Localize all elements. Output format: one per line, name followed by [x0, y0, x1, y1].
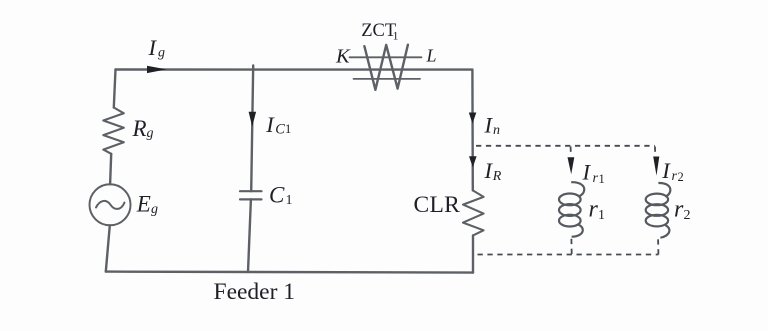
dashed wire r2 branch top stub: [654, 147, 656, 157]
dashed wire bottom of recloser box: [478, 254, 659, 256]
svg-text:1: 1: [286, 193, 293, 208]
svg-text:E: E: [136, 192, 151, 217]
svg-text:g: g: [147, 126, 154, 141]
svg-text:1: 1: [285, 122, 291, 136]
svg-text:C: C: [275, 121, 285, 137]
wire bottom horizontal: [106, 272, 473, 273]
svg-text:n: n: [493, 123, 500, 138]
svg-text:I: I: [148, 35, 158, 60]
wire left between Rg and Eg: [110, 154, 111, 185]
svg-text:g: g: [151, 202, 158, 217]
svg-text:ZCT: ZCT: [361, 21, 396, 41]
source Eg sine wave: [96, 201, 125, 209]
dashed wire r1 branch bottom stub: [570, 239, 572, 255]
svg-text:I: I: [661, 158, 671, 183]
svg-text:r: r: [674, 196, 684, 222]
svg-text:g: g: [158, 45, 165, 60]
arrow IC1: [249, 112, 257, 127]
wire left below Eg: [106, 225, 110, 271]
arrow Ig: [147, 66, 167, 73]
arrow Ir1: [568, 157, 575, 174]
resistor CLR zigzag: [463, 190, 484, 235]
ZCT1 lower line: [354, 78, 421, 80]
svg-text:R: R: [492, 169, 502, 184]
wire capacitor branch lower: [248, 199, 251, 272]
svg-text:I: I: [484, 113, 494, 138]
svg-text:C: C: [269, 183, 285, 208]
inductor r1 coil: [571, 182, 584, 196]
svg-text:r: r: [589, 197, 599, 223]
svg-text:I: I: [265, 112, 275, 137]
resistor Rg zigzag: [103, 108, 124, 154]
wire capacitor branch upper (with junction tick): [251, 66, 253, 192]
wire right vertical lower: [472, 235, 474, 272]
dashed wire r2 branch bottom stub: [657, 239, 659, 254]
source Eg circle: [90, 184, 131, 225]
svg-text:CLR: CLR: [414, 192, 461, 218]
svg-text:1: 1: [393, 28, 399, 42]
svg-text:R: R: [132, 116, 147, 141]
dashed wire top of recloser box: [476, 145, 655, 147]
wire right vertical upper: [471, 70, 474, 191]
svg-text:I: I: [582, 160, 592, 185]
capacitor C1 bottom plate: [240, 198, 262, 200]
wire left vertical upper segment: [114, 70, 116, 108]
inductor r2 coil: [658, 183, 670, 197]
wire top horizontal: [116, 68, 473, 70]
svg-text:1: 1: [599, 172, 605, 186]
arrow In: [469, 113, 477, 124]
svg-text:1: 1: [598, 208, 605, 223]
svg-text:L: L: [426, 45, 437, 65]
svg-text:2: 2: [678, 170, 684, 184]
svg-text:Feeder 1: Feeder 1: [214, 279, 296, 305]
ZCT1 upper line K-L: [350, 56, 422, 58]
svg-text:2: 2: [684, 208, 691, 223]
svg-text:K: K: [335, 45, 351, 67]
dashed wire r1 branch top stub: [570, 147, 572, 157]
arrow IR: [469, 156, 477, 167]
ZCT1 W winding: [364, 45, 408, 90]
arrow Ir2: [653, 157, 659, 176]
capacitor C1 top plate: [240, 190, 262, 192]
